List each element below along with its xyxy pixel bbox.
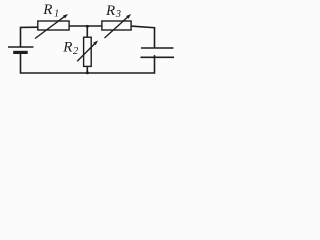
wire R2 bottom lead [86,66,88,73]
wire R2 top lead [86,26,88,38]
label R1 [42,2,59,19]
resistor R2 [77,37,98,66]
svg-text:1: 1 [54,9,59,20]
svg-text:R: R [62,40,72,56]
capacitor C1 [141,48,175,57]
wire top-right segment [131,26,155,48]
svg-text:R: R [42,2,52,18]
battery B1 [8,47,34,52]
wire top-left segment [21,27,39,47]
label R3 [105,3,121,20]
node junction top [86,25,89,28]
wire bottom [21,53,155,73]
label R2 [62,40,79,57]
resistor R1 [35,14,69,39]
svg-text:R: R [105,3,115,19]
svg-text:2: 2 [73,46,79,57]
resistor R3 [102,14,131,38]
wire top-middle segment [69,25,103,27]
node junction bottom [86,71,89,74]
svg-text:3: 3 [115,9,121,20]
